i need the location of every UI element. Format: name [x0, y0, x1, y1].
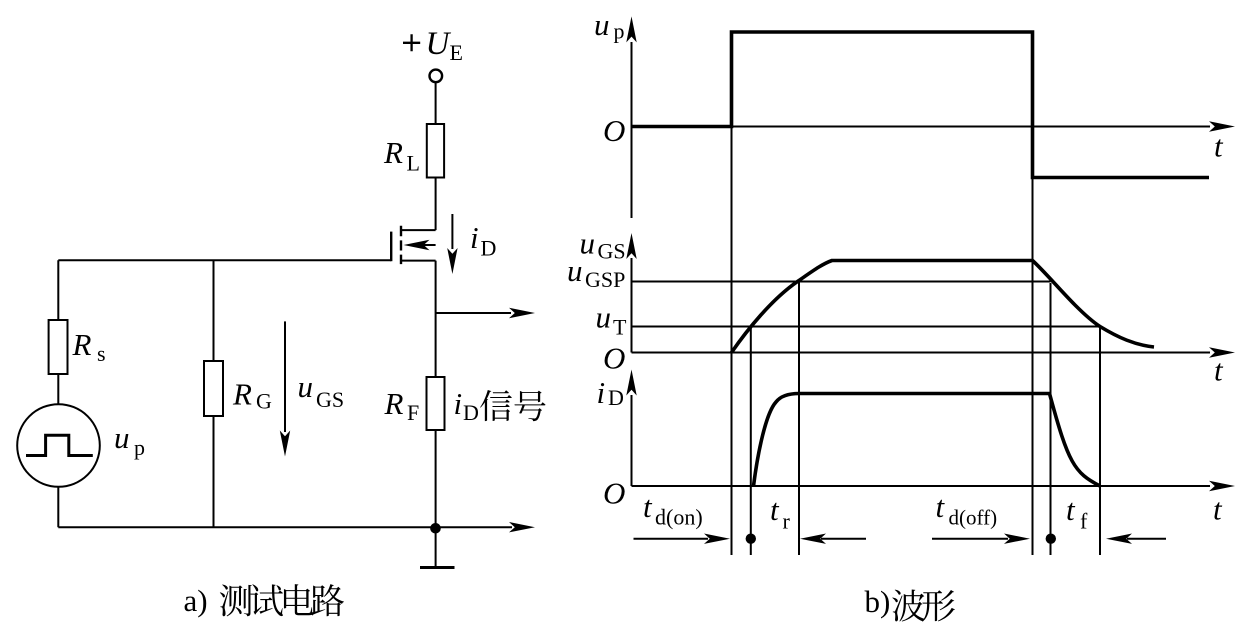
svg-text:O: O — [603, 113, 625, 148]
svg-text:GS: GS — [316, 387, 344, 412]
svg-text:t: t — [1214, 353, 1224, 388]
svg-text:u: u — [567, 253, 583, 288]
svg-text:R: R — [384, 386, 404, 421]
svg-text:t: t — [936, 489, 946, 524]
svg-text:O: O — [603, 341, 625, 376]
svg-text:t: t — [770, 492, 780, 527]
svg-text:d(on): d(on) — [655, 505, 703, 530]
svg-text:L: L — [407, 151, 420, 176]
svg-text:D: D — [463, 400, 479, 425]
svg-text:i: i — [470, 220, 479, 255]
svg-text:G: G — [256, 389, 272, 414]
svg-text:E: E — [450, 40, 463, 65]
svg-text:t: t — [1066, 492, 1076, 527]
svg-text:U: U — [426, 26, 452, 62]
svg-text:R: R — [72, 327, 92, 362]
svg-text:u: u — [594, 7, 610, 42]
svg-text:D: D — [608, 385, 624, 410]
svg-text:F: F — [407, 400, 419, 425]
svg-text:t: t — [1213, 492, 1223, 527]
svg-text:R: R — [383, 135, 403, 170]
svg-text:p: p — [134, 435, 145, 460]
svg-text:r: r — [783, 509, 791, 534]
svg-text:a): a) — [184, 583, 208, 618]
svg-text:f: f — [1080, 509, 1088, 534]
svg-text:i: i — [597, 375, 606, 410]
svg-text:O: O — [603, 476, 625, 511]
svg-text:u: u — [298, 369, 314, 404]
svg-text:t: t — [1214, 129, 1224, 164]
svg-text:p: p — [614, 19, 625, 44]
svg-text:s: s — [97, 341, 106, 366]
svg-text:b): b) — [865, 584, 891, 619]
svg-text:GS: GS — [598, 239, 626, 264]
svg-text:D: D — [481, 236, 497, 261]
svg-text:u: u — [114, 420, 130, 455]
svg-text:R: R — [232, 377, 252, 412]
svg-text:t: t — [643, 489, 653, 524]
svg-text:i: i — [454, 386, 463, 421]
svg-text:GSP: GSP — [585, 267, 625, 292]
svg-text:d(off): d(off) — [949, 506, 998, 530]
svg-text:T: T — [613, 315, 627, 340]
svg-text:u: u — [596, 300, 612, 335]
